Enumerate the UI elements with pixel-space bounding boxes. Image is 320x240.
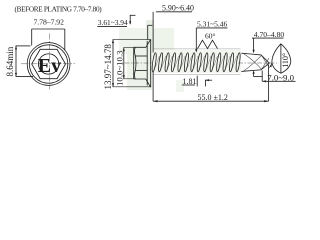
svg-text:1.81: 1.81: [183, 77, 197, 86]
svg-text:5.90~6.40: 5.90~6.40: [162, 4, 194, 13]
svg-text:55.0 ±1.2: 55.0 ±1.2: [198, 93, 228, 102]
svg-text:13.97~14.78: 13.97~14.78: [103, 44, 113, 90]
svg-text:7.78–7.92: 7.78–7.92: [34, 18, 65, 27]
svg-text:4.70–4.80: 4.70–4.80: [254, 30, 285, 39]
svg-text:(BEFORE PLATING 7.70–7.80): (BEFORE PLATING 7.70–7.80): [15, 5, 103, 13]
svg-text:5.31~5.46: 5.31~5.46: [197, 20, 228, 29]
svg-text:3.61~3.94: 3.61~3.94: [98, 18, 128, 27]
svg-text:110°: 110°: [281, 53, 290, 68]
svg-text:8.64min: 8.64min: [5, 46, 15, 76]
svg-text:7.0~9.0: 7.0~9.0: [267, 72, 294, 82]
svg-text:Ev: Ev: [38, 55, 61, 77]
svg-text:10.0~10.3: 10.0~10.3: [115, 50, 125, 86]
svg-text:60°: 60°: [205, 32, 216, 41]
